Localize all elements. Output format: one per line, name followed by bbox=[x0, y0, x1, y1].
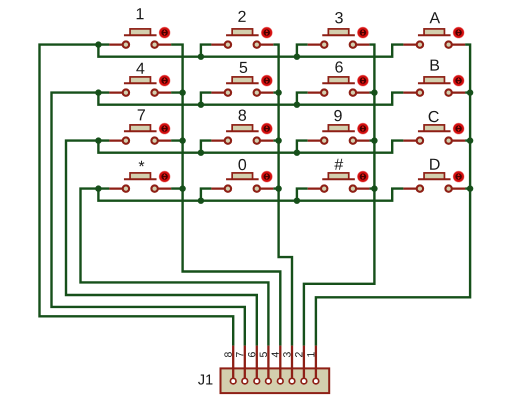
junction row 1 jog node col 2 bbox=[198, 54, 204, 60]
J1 pin number label 3 bbox=[283, 352, 290, 357]
connector J1 reference label bbox=[198, 375, 212, 385]
junction row 4 jog node col 2 bbox=[198, 198, 204, 204]
junction row 4 jog node col 3 bbox=[294, 198, 300, 204]
junction column 2 row 4 node bbox=[275, 185, 281, 191]
wire row 4 bus bar under buttons with rising jogs bbox=[98, 189, 403, 201]
junction row 2 jog node col 2 bbox=[198, 102, 204, 108]
wire row 2 bus bar under buttons with rising jogs bbox=[98, 93, 403, 105]
wire column 1 (buttons right terminals to J1 pin 4) bbox=[171, 45, 280, 346]
wire row 4 feed bus (left bus from row 4 to J1 pin 5) bbox=[81, 189, 269, 346]
J1 pin 7 stub and pad bbox=[242, 346, 248, 384]
J1 pin 6 stub and pad bbox=[254, 346, 260, 384]
J1 pin number label 8 bbox=[224, 352, 231, 357]
push button "8" (row 3 col 2) bbox=[211, 110, 273, 144]
junction column 3 row 3 node bbox=[371, 137, 377, 143]
J1 pin number label 6 bbox=[248, 352, 255, 357]
J1 pin 3 stub and pad bbox=[289, 346, 295, 384]
junction row 2 feed node bbox=[95, 89, 101, 95]
J1 pin 4 stub and pad bbox=[278, 346, 284, 384]
J1 pin 2 stub and pad bbox=[301, 346, 307, 384]
push button "A" (row 1 col 4) bbox=[403, 12, 465, 48]
junction row 2 jog node col 3 bbox=[294, 102, 300, 108]
junction column 1 row 4 node bbox=[179, 185, 185, 191]
push button "1" (row 1 col 1) bbox=[109, 8, 171, 48]
junction row 4 feed node bbox=[95, 185, 101, 191]
push button "3" (row 1 col 3) bbox=[308, 12, 370, 48]
push button "D" (row 4 col 4) bbox=[403, 159, 465, 192]
junction row 1 feed node bbox=[95, 41, 101, 47]
J1 pin number label 4 bbox=[272, 352, 279, 357]
junction column 4 row 4 node bbox=[467, 185, 473, 191]
wire column 3 (buttons right terminals to J1 pin 2) bbox=[304, 45, 375, 346]
wire row 3 feed bus (left bus from row 3 to J1 pin 6) bbox=[66, 141, 257, 346]
junction column 2 row 2 node bbox=[275, 89, 281, 95]
J1 pin 5 stub and pad bbox=[266, 346, 272, 384]
wire row 3 bus bar under buttons with rising jogs bbox=[98, 141, 403, 153]
junction column 3 row 2 node bbox=[371, 89, 377, 95]
junction column 3 row 4 node bbox=[371, 185, 377, 191]
wire row 1 feed bus (left bus from row 1 to J1 pin 8) bbox=[40, 45, 234, 346]
J1 pin 8 stub and pad bbox=[230, 346, 236, 384]
push button "7" (row 3 col 1) bbox=[109, 109, 171, 143]
wire column 2 (buttons right terminals to J1 pin 3) bbox=[273, 45, 292, 346]
push button "*" (row 4 col 1) bbox=[109, 161, 171, 192]
junction column 2 row 3 node bbox=[275, 137, 281, 143]
J1 pin number label 1 bbox=[307, 352, 314, 357]
wire row 2 feed bus (left bus from row 2 to J1 pin 7) bbox=[52, 93, 245, 346]
wire column 4 (buttons right terminals to J1 pin 1) bbox=[316, 45, 470, 346]
push button "B" (row 2 col 4) bbox=[403, 60, 465, 96]
push button "4" (row 2 col 1) bbox=[109, 63, 171, 96]
J1 pin number label 5 bbox=[260, 352, 267, 357]
push button "5" (row 2 col 2) bbox=[211, 62, 273, 96]
push button "2" (row 1 col 2) bbox=[211, 11, 273, 48]
junction row 3 jog node col 2 bbox=[198, 150, 204, 156]
push button "#" (row 4 col 3) bbox=[308, 159, 370, 192]
wire row 1 bus bar under buttons with rising jogs bbox=[98, 45, 403, 57]
junction column 4 row 3 node bbox=[467, 137, 473, 143]
connector J1 body bbox=[221, 368, 330, 393]
junction column 1 row 3 node bbox=[179, 137, 185, 143]
junction row 3 jog node col 3 bbox=[294, 150, 300, 156]
junction row 1 jog node col 3 bbox=[294, 54, 300, 60]
push button "9" (row 3 col 3) bbox=[308, 110, 370, 144]
push button "6" (row 2 col 3) bbox=[308, 61, 370, 95]
junction column 1 row 2 node bbox=[179, 89, 185, 95]
push button "0" (row 4 col 2) bbox=[211, 159, 273, 192]
junction column 4 row 2 node bbox=[467, 89, 473, 95]
J1 pin number label 2 bbox=[295, 352, 302, 357]
J1 pin 1 stub and pad bbox=[313, 346, 319, 384]
push button "C" (row 3 col 4) bbox=[403, 111, 465, 144]
J1 pin number label 7 bbox=[236, 352, 243, 357]
junction row 3 feed node bbox=[95, 137, 101, 143]
